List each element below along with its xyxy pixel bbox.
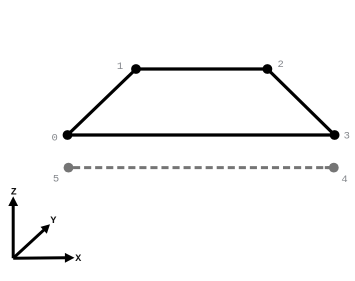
svg-text:1: 1 [117,61,123,73]
svg-text:2: 2 [278,59,284,71]
svg-text:4: 4 [341,174,347,186]
svg-text:0: 0 [51,132,57,144]
svg-text:5: 5 [53,174,59,186]
svg-text:Z: Z [11,188,17,199]
svg-text:Y: Y [50,216,56,227]
svg-text:X: X [75,254,81,265]
svg-text:3: 3 [344,131,350,143]
